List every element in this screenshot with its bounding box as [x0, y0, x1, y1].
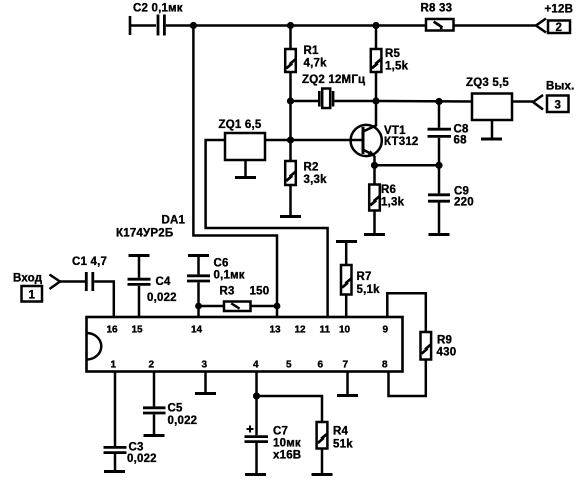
- wire pin 4 down: [255, 372, 258, 397]
- svg-text:DA1: DA1: [162, 215, 186, 227]
- svg-text:С2 0,1мк: С2 0,1мк: [133, 3, 183, 15]
- svg-text:R9: R9: [437, 335, 452, 347]
- wire C2 junction down to pin 13: [193, 26, 277, 319]
- svg-text:R6: R6: [381, 184, 396, 196]
- ground under R2: [280, 215, 301, 218]
- wire pin 2 to C5: [153, 372, 156, 407]
- svg-text:Вход: Вход: [13, 273, 43, 285]
- svg-text:7: 7: [343, 360, 349, 371]
- svg-text:R4: R4: [333, 426, 349, 438]
- svg-text:14: 14: [191, 325, 203, 336]
- svg-text:15: 15: [132, 325, 144, 336]
- svg-text:0,022: 0,022: [168, 415, 198, 427]
- node junction dot crystal row right: [372, 97, 379, 104]
- wire ZQ3 to output: [512, 100, 533, 103]
- wire input to C1: [60, 280, 85, 283]
- ground under C5: [144, 434, 165, 437]
- svg-text:С1 4,7: С1 4,7: [72, 256, 107, 268]
- capacitor C3: [104, 442, 157, 471]
- wire pin 7 to ground: [346, 372, 349, 395]
- node junction dot crystal row left: [287, 97, 294, 104]
- wire R5 to collector: [375, 72, 378, 101]
- svg-text:R2: R2: [304, 162, 319, 174]
- svg-text:+12В: +12В: [545, 4, 574, 16]
- resistor R6: [369, 165, 404, 210]
- capacitor C4: [128, 256, 177, 305]
- svg-text:ZQ1 6,5: ZQ1 6,5: [219, 119, 262, 131]
- svg-text:51k: 51k: [333, 439, 353, 451]
- transistor VT1: [351, 125, 419, 165]
- wire ZQ1 left to pin 11: [206, 140, 328, 318]
- ground inverted above C4: [129, 254, 150, 257]
- node junction dot R3 left: [195, 303, 202, 310]
- wire top rail: [166, 24, 426, 27]
- resistor R5: [371, 48, 409, 73]
- svg-text:ZQ2 12МГц: ZQ2 12МГц: [302, 74, 365, 86]
- svg-text:С5: С5: [168, 403, 184, 415]
- capacitor C1: [72, 256, 107, 291]
- wire R8 to +12V terminal: [454, 24, 537, 27]
- wire top rail to R1: [289, 26, 292, 50]
- resistor R7: [341, 265, 380, 296]
- svg-text:3,3k: 3,3k: [304, 174, 328, 186]
- wire top rail left segment: [129, 24, 156, 27]
- svg-text:2: 2: [149, 360, 155, 371]
- svg-text:С7: С7: [273, 426, 288, 438]
- svg-text:ZQ3 5,5: ZQ3 5,5: [466, 77, 509, 89]
- wire pin 3 to ground: [204, 372, 207, 393]
- resistor R1: [285, 45, 327, 72]
- node junction dot R3 right / pin13: [274, 303, 281, 310]
- svg-text:R3: R3: [220, 286, 235, 298]
- svg-text:5,1k: 5,1k: [357, 284, 381, 296]
- wire pin 1 to C3: [114, 372, 117, 447]
- svg-text:1: 1: [29, 290, 36, 302]
- resistor R3: [199, 286, 278, 312]
- svg-text:4,7k: 4,7k: [304, 58, 328, 70]
- ground under R4: [312, 473, 333, 476]
- capacitor C6: [187, 256, 245, 282]
- capacitor C2: [133, 3, 183, 36]
- wire R2 to ground: [289, 185, 292, 215]
- ground under R6: [373, 211, 376, 234]
- svg-text:Вых.: Вых.: [546, 81, 575, 93]
- ground inverted above C6: [188, 254, 209, 257]
- svg-text:13: 13: [270, 325, 282, 336]
- svg-text:R1: R1: [304, 45, 320, 57]
- IC DA1 К174УР2Б body: [87, 215, 403, 372]
- svg-text:1,5k: 1,5k: [385, 61, 409, 73]
- node junction dot top rail / R5 column: [372, 22, 379, 29]
- node junction dot C8 top: [435, 98, 442, 105]
- wire crystal row to C8 and ZQ3: [376, 100, 472, 103]
- node +12V terminal arrow and box 2: [536, 4, 573, 35]
- svg-text:С3: С3: [129, 442, 144, 454]
- capacitor C5: [143, 403, 197, 435]
- wire R4 to ground: [321, 449, 324, 474]
- wire junction to R4: [257, 396, 323, 422]
- svg-text:12: 12: [295, 325, 307, 336]
- resistor R4: [317, 422, 354, 451]
- resistor R9: [421, 332, 457, 360]
- wire C1 to pin 16: [94, 282, 114, 319]
- svg-text:0,022: 0,022: [127, 453, 157, 465]
- svg-text:R7: R7: [357, 271, 372, 283]
- wire C6 to pin 14: [197, 282, 200, 318]
- resistor R2: [285, 161, 327, 186]
- ground inverted above R7: [336, 240, 357, 243]
- svg-text:8: 8: [382, 360, 388, 371]
- resistor R8: [421, 3, 454, 31]
- svg-text:1,3k: 1,3k: [381, 197, 405, 209]
- svg-text:6: 6: [318, 360, 324, 371]
- capacitor C8: [428, 102, 470, 166]
- wire collector: [363, 101, 376, 132]
- filter ZQ1: [219, 119, 266, 160]
- capacitor C9: [428, 165, 474, 233]
- wire pin 9 to R9 top: [387, 293, 426, 332]
- node junction dot base row: [287, 136, 294, 143]
- svg-text:1: 1: [111, 360, 117, 371]
- svg-text:430: 430: [437, 347, 457, 359]
- ground under C9: [429, 233, 450, 236]
- ground under C3: [104, 470, 125, 473]
- svg-text:68: 68: [454, 135, 468, 147]
- node junction dot top rail / R1 column: [287, 22, 294, 29]
- svg-text:С6: С6: [214, 258, 229, 270]
- node input terminal arrow and box 1: [13, 273, 60, 302]
- svg-text:С4: С4: [156, 276, 172, 288]
- svg-text:х16В: х16В: [273, 450, 301, 462]
- node input tick top-left: [129, 16, 132, 35]
- ground under ZQ1: [244, 160, 247, 176]
- svg-text:16: 16: [107, 325, 119, 336]
- svg-text:11: 11: [320, 325, 331, 336]
- wire base row ZQ1 to VT1: [265, 139, 362, 142]
- svg-text:10: 10: [339, 325, 351, 336]
- svg-text:2: 2: [556, 22, 563, 34]
- ground under pin 3: [195, 392, 216, 395]
- svg-text:3: 3: [202, 360, 208, 371]
- filter ZQ3: [466, 77, 512, 139]
- node junction dot pin 4: [253, 392, 260, 399]
- node junction dot C2/top rail: [190, 22, 197, 29]
- wire emitter row: [375, 164, 440, 167]
- node junction dot emitter: [371, 162, 378, 169]
- svg-text:220: 220: [454, 197, 474, 209]
- ground under pin 7: [337, 394, 358, 397]
- wire R9 bottom to pin 8: [389, 360, 426, 397]
- wire R1 to base row: [289, 72, 292, 161]
- wire C4 to pin 15: [138, 286, 141, 318]
- svg-text:150: 150: [250, 286, 270, 298]
- svg-text:3: 3: [555, 100, 562, 112]
- svg-text:КТ312: КТ312: [384, 136, 419, 148]
- node junction dot C8 bottom: [435, 162, 442, 169]
- svg-text:R8 33: R8 33: [421, 3, 453, 15]
- svg-text:10мк: 10мк: [273, 438, 301, 450]
- crystal ZQ2: [291, 74, 377, 108]
- svg-text:0,1мк: 0,1мк: [214, 270, 245, 282]
- svg-text:0,022: 0,022: [147, 292, 177, 304]
- svg-text:9: 9: [383, 325, 389, 336]
- svg-text:4: 4: [253, 360, 259, 371]
- svg-text:К174УР2Б: К174УР2Б: [116, 228, 173, 240]
- ground under C7: [245, 473, 266, 476]
- capacitor C7 electrolytic: [245, 396, 302, 473]
- wire top rail to R5: [375, 26, 378, 50]
- node output terminal arrow and box 3: [533, 81, 575, 113]
- wire R7 to pin 10: [345, 295, 348, 319]
- svg-text:5: 5: [286, 360, 292, 371]
- svg-text:R5: R5: [385, 48, 401, 60]
